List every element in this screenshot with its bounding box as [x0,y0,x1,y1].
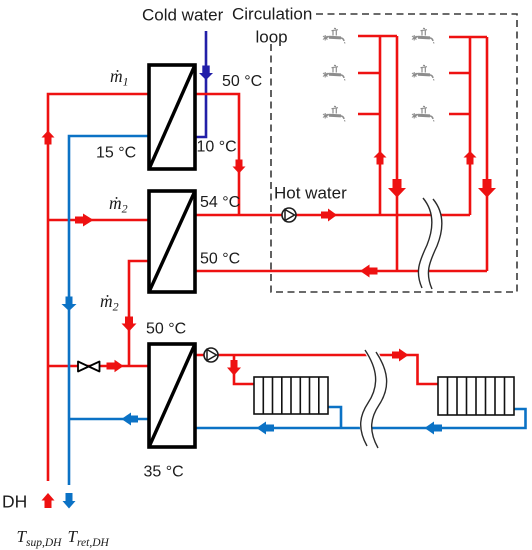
wire riser group 2 return [486,37,489,271]
wire DH return riser blue [69,136,149,485]
wire HX3 return to DH blue [69,418,149,421]
svg-text:ṁ1: ṁ1 [110,66,129,89]
wire cold water inlet navy [195,31,206,137]
wire radiator 1 feed branch [234,355,254,384]
arrow down cold water [199,66,213,81]
wire riser group 1 return [396,36,399,271]
arrow down radiator 1 branch [227,360,241,376]
wire hot water supply line [195,214,470,217]
svg-text:50 °C: 50 °C [222,73,262,90]
arrow up on DH supply [42,131,55,145]
wire circulation return line [195,270,487,273]
arrow down on 50C drop [233,160,246,174]
svg-text:50 °C: 50 °C [200,251,240,268]
svg-text:Hot water: Hot water [274,184,347,203]
circulation loop dashed boundary [271,14,517,292]
svg-text:ṁ2: ṁ2 [109,193,128,216]
arrow right heating supply [392,349,409,362]
tap icon 3 [323,106,345,121]
arrow right to HX2 [75,214,94,227]
wire HX2 m2 out drop [129,261,149,366]
arrow left heating return near HX3 [257,422,275,435]
svg-text:10 °C: 10 °C [197,139,237,156]
heat exchanger HX1 [149,65,195,169]
wire heating return line blue [195,409,526,428]
radiator 2 [438,377,514,415]
wire DH supply branch to HX2 [48,219,149,222]
svg-text:Tret,DH: Tret,DH [68,527,110,549]
wire radiator 1 outlet [328,407,341,428]
arrow down on m2 drop [122,317,137,332]
label Circulation loop [232,5,312,47]
svg-text:15 °C: 15 °C [96,145,136,162]
arrow left heating return right [425,422,443,435]
svg-text:ṁ2: ṁ2 [100,291,119,314]
svg-text:50 °C: 50 °C [146,321,186,338]
wire riser group 2 supply [449,37,487,215]
tap icon 1 [323,28,345,43]
tap icon 6 [412,106,434,121]
pump P2 heating [204,348,218,362]
tap icon 5 [412,65,434,80]
svg-text:35 °C: 35 °C [144,464,184,481]
valve V1 [78,362,100,372]
wire DH supply branch to HX3 [48,365,149,368]
arrow right on hot water line [321,209,337,222]
pump P1 hot water [282,208,296,222]
wire DH supply riser red [48,94,149,481]
arrow up riser 1 [374,151,387,165]
svg-text:Tsup,DH: Tsup,DH [17,527,63,549]
arrow down riser 1 return [388,179,406,198]
svg-text:loop: loop [256,28,288,47]
tap icon 2 [323,65,345,80]
svg-text:DH: DH [2,492,27,512]
wire riser group 1 supply [358,36,397,215]
arrow DH return bottom [63,493,76,509]
heat exchanger HX2 [149,191,195,292]
pipe break symbol heating circuit [361,350,387,448]
tap icon 4 [412,28,434,43]
svg-text:Cold water: Cold water [142,6,224,25]
arrow down riser 2 return [478,179,496,198]
svg-text:54 °C: 54 °C [200,194,240,211]
arrow up riser 2 [464,151,477,165]
svg-text:Circulation: Circulation [232,5,312,24]
arrow left on circulation return [360,265,378,278]
arrow left on HX3 return [122,413,139,426]
heat exchanger HX3 [149,344,195,447]
wire HX3 heating supply to radiators [195,355,438,384]
arrow down on DH return [62,297,77,312]
arrow right to HX3 [107,360,124,372]
radiator 1 [254,377,328,414]
arrow DH supply bottom [42,493,55,508]
pipe break symbol circulation loop [418,198,442,289]
wire HX1 50C out to hot water line [195,94,239,215]
